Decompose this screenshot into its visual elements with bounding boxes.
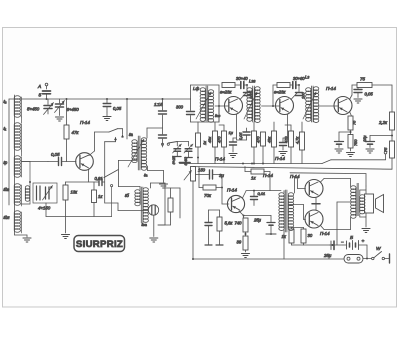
svg-text:г=23к: г=23к [274,90,286,95]
coil L7 primary [279,193,284,231]
resistor R13 43k [207,122,218,164]
wire T5 collector [243,190,282,198]
wire vert x127 [126,99,128,139]
svg-text:W: W [376,246,381,252]
capacitor C16 100 [296,85,306,99]
svg-text:П-14: П-14 [263,173,273,178]
coil L8 primary [351,186,356,218]
fuse F1 [344,255,367,264]
core L5 [253,86,255,122]
resistor R14 470 [217,125,227,164]
svg-text:4,7к: 4,7к [295,137,300,144]
wire speaker bottom [360,213,366,227]
resistor R10 2.2k [378,112,395,141]
svg-text:ℓа: ℓа [128,132,133,137]
svg-text:0,05: 0,05 [113,106,122,111]
coil L6 secondary [313,87,318,123]
svg-text:2,2к: 2,2к [378,120,388,125]
resistor R23 740 [235,218,249,236]
capacitor C21 1u [229,130,237,152]
resistor R1 47k [64,99,79,162]
wire bus2 [193,167,392,170]
trimmer contacts [37,186,41,200]
wire T7 collector [321,218,351,230]
svg-text:300: 300 [176,105,184,110]
switch S1c contacts [161,142,177,146]
svg-text:ℓб: ℓб [124,193,129,198]
capacitor C17 0.05 [354,88,373,98]
svg-text:П-14: П-14 [275,156,285,161]
coil L1r antenna [3,156,22,177]
trimmer C11 L3 [148,205,158,237]
coil L5 primary [247,88,252,121]
ground G11 [229,154,237,158]
capacitor C24 3u [196,170,224,188]
coil L3 secondary [143,188,148,223]
svg-text:Lзв: Lзв [249,79,256,84]
svg-text:Lф: Lф [193,86,199,91]
capacitor C26 [205,210,220,245]
capacitor C3 gang 6-450 [55,99,80,116]
wire speaker top [360,186,366,195]
wire emitters bar [312,197,320,210]
ground G2b [103,112,111,121]
wire T5 emitter [239,211,271,218]
wire T4 emitter [350,112,352,117]
ground G3 [62,235,70,239]
potentiometer R20 150 [184,167,206,260]
ground G4 [160,184,168,188]
label T6T7 type [320,231,330,236]
capacitor C14 100 [244,85,254,99]
trimmer C15 30-60 [293,76,305,89]
label T3 type [275,156,285,161]
core L2a [138,136,140,170]
coil L2a secondary [141,138,148,178]
ground G8 [335,149,343,153]
transistor T2 [225,97,243,115]
svg-text:25μ: 25μ [253,218,262,223]
wire battery feed [330,244,344,246]
svg-text:1:15: 1:15 [154,102,163,107]
coil L5 secondary [255,87,260,123]
capacitor C8 lower [159,135,167,147]
capacitor C22 0.05em [237,128,251,140]
coil L4 primary [200,88,205,121]
coil L1n antenna [3,123,22,151]
svg-text:470: 470 [256,136,261,143]
coil L1dv secondary [25,186,29,201]
transistor T1 [76,153,94,171]
resistor R21 70k [199,167,223,199]
svg-text:750: 750 [353,139,358,146]
coil L2a label [128,132,133,137]
coil L1dl antenna [3,211,22,233]
svg-text:П-14: П-14 [215,157,225,162]
wire L3 top [139,187,141,191]
ground G13 [242,254,250,258]
svg-text:25μ: 25μ [323,253,332,258]
label T6 type [263,173,273,178]
ground G12 [279,152,287,156]
svg-text:13к: 13к [71,190,79,195]
capacitor C1 value 5 [39,91,51,99]
svg-text:47к: 47к [72,130,80,135]
trimmer C6 4-150 [38,186,53,211]
coil L6 label [305,75,309,80]
coil L2a primary [132,140,137,163]
capacitor C4 0.05 [48,152,76,166]
coil L1dv antenna [3,184,22,206]
wire emitter res bottom [292,244,330,246]
resistor R18 470 [284,125,294,164]
svg-text:ℓа: ℓа [143,173,148,178]
transistor T4 [334,97,352,115]
coil L7 secondary [288,193,293,231]
capacitor C5 0.01 [95,176,105,186]
svg-text:0,05: 0,05 [51,152,60,157]
capacitor C2 gang 5-450 [27,99,54,115]
svg-text:15μ: 15μ [362,135,367,142]
svg-text:ℓсв: ℓсв [214,113,220,118]
svg-text:70к: 70к [204,193,212,198]
wire coil taps [22,117,32,204]
core L3 [141,187,143,223]
svg-text:5: 5 [39,93,42,99]
wire interstage2 [262,85,280,107]
wire battery corner [366,245,368,260]
coil L6 primary [306,88,311,121]
capacitor C28 25u battery [323,241,334,258]
wire frame left [105,137,118,142]
wire trimmer bottom [46,203,112,217]
battery B [341,235,367,250]
svg-text:5÷450: 5÷450 [27,107,40,112]
coil L4 secondary [208,90,213,122]
wire L7 prim bottom [283,230,285,259]
label T5 type [227,188,237,193]
core L8 [357,183,359,216]
resistor R12 1k [196,122,207,164]
label T7 type [290,174,300,179]
capacitor C4b 0.05 bus [103,99,122,112]
wire emitters down [292,228,312,230]
ground G6 [354,99,362,103]
ground G5 [150,238,158,242]
resistor R27 30 [301,229,313,245]
svg-text:740: 740 [235,221,243,226]
wire L8 tap [337,202,351,245]
svg-text:г=23к: г=23к [220,90,232,95]
wire agc line [290,173,366,186]
svg-text:+: + [362,240,365,245]
transistor T6 [305,180,323,198]
ground G2 [56,117,64,121]
wire L6 to T4 base [319,105,338,107]
coil L4 label [193,86,199,91]
capacitor C7 1:15 upper [154,99,167,134]
wire coil bottom [15,235,28,237]
coil L8 secondary [360,195,365,214]
svg-text:ℓдл: ℓдл [3,215,11,220]
core L4 [206,86,208,121]
label T2 type [215,157,225,162]
resistor R11 75 [383,141,395,169]
wire base T1 [22,161,49,163]
label transistor T1 type [80,120,90,125]
resistor R17 43k [267,122,277,164]
ground G14 [362,229,370,233]
svg-text:ℓдв: ℓдв [3,187,11,192]
arrow L4 tuning [196,92,211,119]
resistor R9 750 [348,135,358,152]
svg-text:5,6к: 5,6к [225,221,234,226]
resistor R6 23k [273,83,292,95]
ground G9 [366,149,374,153]
svg-text:6÷25: 6÷25 [172,155,176,164]
svg-text:SIURPRIZ: SIURPRIZ [76,239,123,250]
coil L5 label [249,79,256,84]
svg-text:П-14: П-14 [326,86,336,91]
wire T2 collector [240,93,246,100]
transistor T5 [227,195,244,212]
resistor R8 75 [348,116,357,135]
coil L3 label [124,193,129,198]
wire bus1 left end [180,162,191,164]
wire T1 collector [89,132,109,156]
svg-text:0,05: 0,05 [365,92,374,97]
antenna A terminal [37,83,48,90]
svg-text:39: 39 [237,240,242,245]
trimmer block frame [33,183,57,203]
svg-text:6÷450: 6÷450 [67,107,80,112]
wire right column [391,85,393,112]
svg-text:A: A [37,84,41,90]
switch S1b blade [104,170,118,217]
wire T3 collector [291,93,297,100]
capacitor C23 [280,138,288,150]
ground G1 [23,238,31,242]
core L7 [285,190,287,232]
resistor R15 5.1k [252,122,257,165]
wire bottom bus [192,258,344,260]
wire left tap bus [8,99,10,205]
svg-text:ℓр: ℓр [3,160,8,165]
wire T5 base [222,188,229,205]
wire T1 emitter [66,169,100,182]
wire 25u to R [270,233,272,235]
svg-text:30: 30 [308,233,313,238]
svg-text:П-14: П-14 [227,188,237,193]
core L6 [312,86,314,122]
resistor R22 5.6k [216,210,233,245]
svg-text:ℓза: ℓза [141,222,148,227]
coil L3 primary [135,190,140,206]
resistor R7 75 [357,77,392,88]
wire L3 frame [158,188,165,225]
svg-text:П-14: П-14 [80,120,90,125]
resistor R2 13k [63,182,78,233]
wire bus1 [180,163,323,165]
resistor R19 4.7k [295,122,305,164]
svg-text:0,05: 0,05 [239,132,243,140]
wire top bus [9,98,191,100]
wire switch path [105,142,149,211]
svg-text:100: 100 [301,92,306,99]
wire L2a top right [147,128,163,138]
svg-text:−: − [341,240,344,245]
resistor R25 1k [245,167,270,191]
svg-text:6÷30: 6÷30 [184,156,188,165]
wire coil rail [14,95,16,235]
switch W1 [367,246,390,263]
arrow L5 tuning [244,92,257,119]
resistor R16 470 [256,132,266,165]
wire T4 collector [350,85,358,100]
transistor T3 [276,97,294,115]
svg-text:75: 75 [360,77,365,82]
arrow L6 tuning [303,92,316,119]
wire L4 frame [191,85,220,122]
capacitor C12 300 [176,99,195,122]
svg-text:0,01: 0,01 [258,191,266,196]
svg-text:П-14: П-14 [290,174,300,179]
wire L3 right [165,188,180,218]
wire L2a bottom [118,160,163,186]
wire T3 emitter [287,114,289,140]
label SIURPRIZ box [74,236,125,252]
capacitor C18 15u left [335,132,351,148]
wire L4 to T2 base [214,106,229,118]
speaker Gr1 [365,194,384,213]
arrow L2a tuning [128,139,144,167]
capacitor C25 0.01 [251,191,266,206]
svg-text:470: 470 [217,136,222,143]
wire L7 prim top [283,191,285,193]
svg-text:43к: 43к [207,137,212,143]
coil L1v antenna [3,96,22,117]
resistor R26 1k [282,229,295,245]
wire T6 collector [321,179,351,187]
resistor R24 39 [237,236,249,252]
svg-text:30÷40: 30÷40 [236,76,248,81]
wire L7 sec top [295,177,306,193]
wire L7 sec bottom [289,204,306,219]
wire monitor jack [322,151,387,163]
resistor R5 23k [220,83,240,95]
ground G7 [347,153,355,157]
switch S1a blade [109,129,124,138]
trimmer C13 30-40 [236,76,248,89]
wire L3 sec top [151,183,166,188]
resistor R4 [158,188,173,225]
trimmer C9 6-25 [172,144,182,165]
wire T2 base bias [218,105,220,122]
svg-text:4÷150: 4÷150 [38,206,51,211]
label T4 type [326,86,336,91]
svg-text:30÷60: 30÷60 [293,76,305,81]
wire T2 emitter [236,114,238,140]
svg-text:43к: 43к [267,137,272,143]
capacitor C19 15u right [362,135,392,148]
capacitor C27 25u [253,216,276,236]
trimmer C10 6-30 [184,144,193,166]
transistor T7 [305,210,323,228]
svg-text:470: 470 [284,136,289,143]
svg-text:Lз: Lз [305,75,309,80]
svg-text:ℓ₂: ℓ₂ [3,99,7,104]
resistor R3 1k [92,182,104,217]
label L3 secondary [141,222,148,227]
svg-text:П-14: П-14 [320,231,330,236]
wire to trimmers [177,142,188,147]
